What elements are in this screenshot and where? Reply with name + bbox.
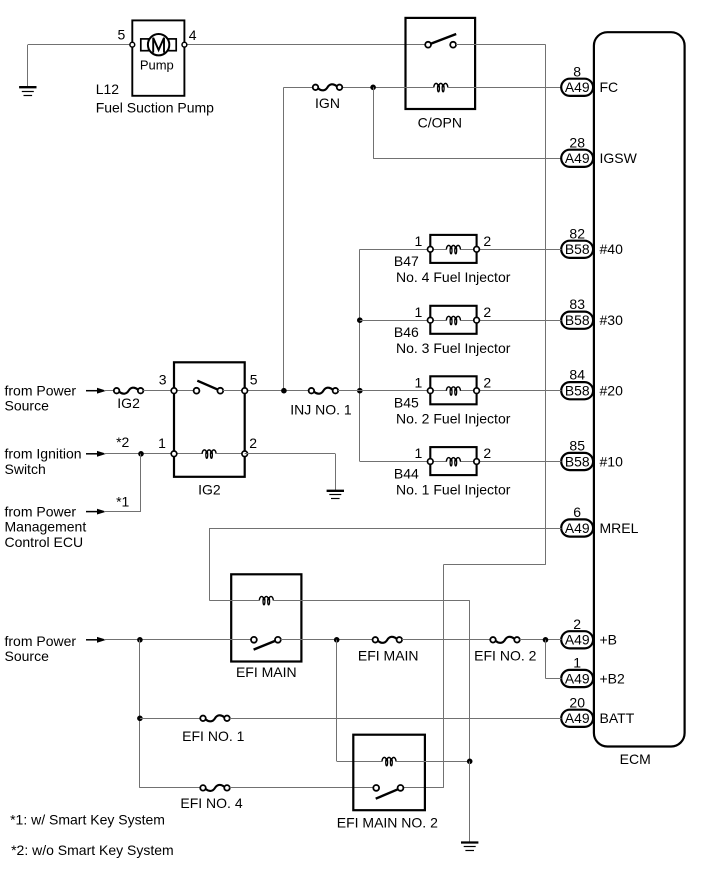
pump terminal pin 4: [182, 42, 187, 47]
fuel injector B47 box: [430, 235, 476, 263]
svg-text:B47: B47: [394, 253, 419, 269]
svg-text:No. 2 Fuel Injector: No. 2 Fuel Injector: [396, 411, 511, 427]
label *1: [116, 493, 129, 509]
node: junction coil/IGSW: [370, 85, 376, 91]
wire: into EFI MAIN NO.2 switch pin: [401, 787, 444, 789]
wire: IGSW horizontal to ECM: [373, 158, 561, 160]
svg-text:INJ NO. 1: INJ NO. 1: [290, 402, 352, 418]
wire: power management to junction: [104, 454, 141, 512]
label from Power Source (bottom): [5, 633, 77, 664]
svg-text:from Power: from Power: [5, 503, 77, 519]
svg-text:Source: Source: [5, 648, 50, 664]
svg-text:5: 5: [250, 371, 258, 387]
svg-text:1: 1: [415, 445, 423, 461]
wire: junction down to IGSW row: [373, 87, 375, 158]
fuse EFI NO. 1: [200, 715, 230, 721]
fuse INJ NO. 1: [309, 388, 339, 394]
svg-text:1: 1: [573, 655, 581, 671]
connector pin A49-8 FC: [561, 63, 618, 96]
wire: IGN branch horizontal: [284, 87, 373, 89]
wire: IG2 fuse to relay pin 3: [143, 390, 196, 392]
pin label 2 (B46): [483, 304, 491, 320]
arrow: from Power Source (IG2): [86, 388, 107, 394]
svg-text:3: 3: [159, 371, 167, 387]
wire: pump pin 4 to C/OPN relay: [184, 44, 428, 46]
node: junction EFI MAIN output: [334, 637, 340, 643]
pin label 5 (IG2): [250, 371, 258, 387]
svg-text:6: 6: [573, 504, 581, 520]
node: junction +B/+B2: [543, 637, 549, 643]
svg-text:B45: B45: [394, 395, 419, 411]
wire: INJ NO.1 fuse to bus: [338, 390, 360, 392]
svg-text:2: 2: [573, 616, 581, 632]
svg-text:BATT: BATT: [600, 710, 635, 726]
label from Ignition Switch: [5, 446, 82, 477]
wire: IG2 coil to pin 2: [216, 453, 245, 455]
wire: bus to injector B47 pin 1: [360, 249, 447, 251]
pin label 3 (IG2): [159, 371, 167, 387]
EFI MAIN NO. 2 relay coil: [382, 757, 396, 765]
IG2 switch: [194, 381, 224, 394]
svg-text:+B: +B: [600, 632, 618, 648]
node: bus junction injector 2: [357, 388, 363, 394]
label from Power Source (top): [5, 383, 77, 414]
wire: coil row left (to MREL riser): [209, 600, 259, 602]
ground (IG2 relay): [327, 491, 344, 499]
svg-text:A49: A49: [565, 520, 590, 536]
injector B46 coil: [446, 316, 460, 324]
IG2 terminal 5: [242, 388, 248, 394]
fuse EFI NO. 2: [490, 637, 520, 643]
node: junction smart key: [138, 451, 144, 457]
injector B45 terminal 1: [428, 388, 434, 394]
wire: +B2 branch: [546, 640, 562, 679]
C/OPN switch: [425, 34, 456, 48]
svg-text:4: 4: [189, 27, 197, 43]
svg-text:No. 4 Fuel Injector: No. 4 Fuel Injector: [396, 269, 511, 285]
label L12: [96, 81, 120, 97]
pin label 2 (B44): [483, 445, 491, 461]
connector pin A49-6 MREL: [561, 504, 638, 537]
arrow: from Ignition Switch: [86, 451, 107, 457]
label Fuel Suction Pump: [96, 100, 214, 116]
connector pin B58-82 #40: [561, 225, 623, 258]
label IGN: [315, 95, 340, 111]
svg-text:*1: *1: [116, 493, 129, 509]
svg-text:2: 2: [483, 233, 491, 249]
ground (EFI MAIN NO. 2): [461, 843, 478, 851]
wire: injector B44 pin 2 to ECM: [460, 461, 561, 463]
svg-text:2: 2: [249, 435, 257, 451]
footnote *1: [10, 812, 165, 828]
svg-text:A49: A49: [565, 150, 590, 166]
pin label 1 (B47): [415, 233, 423, 249]
svg-text:FC: FC: [600, 79, 619, 95]
wire: vertical from IGN down to IG2 output: [283, 87, 285, 390]
wire: down to EFI MAIN NO.2 switch: [443, 565, 445, 788]
svg-text:5: 5: [118, 27, 126, 43]
fuse IG2: [114, 388, 144, 394]
label EFI NO. 1: [182, 728, 244, 744]
svg-text:EFI NO. 1: EFI NO. 1: [182, 728, 244, 744]
svg-text:MREL: MREL: [600, 520, 639, 536]
svg-text:B58: B58: [565, 312, 590, 328]
svg-text:1: 1: [158, 435, 166, 451]
wire: power source riser down: [139, 640, 141, 788]
C/OPN relay box: [406, 18, 476, 109]
svg-text:85: 85: [569, 438, 585, 454]
svg-text:2: 2: [483, 374, 491, 390]
svg-text:C/OPN: C/OPN: [418, 115, 462, 131]
svg-text:#20: #20: [600, 383, 624, 399]
svg-text:8: 8: [573, 63, 581, 79]
connector pin A49-28 IGSW: [561, 134, 637, 167]
svg-text:B58: B58: [565, 241, 590, 257]
label EFI MAIN NO. 2: [337, 815, 438, 831]
fuel suction pump L12 box: [132, 20, 184, 95]
connector pin B58-83 #30: [561, 296, 623, 329]
svg-text:A49: A49: [565, 670, 590, 686]
wire: injector B46 pin 2 to ECM: [460, 320, 561, 322]
label IG2 (fuse): [117, 395, 140, 411]
ground (fuel suction pump, top left): [19, 45, 36, 96]
svg-text:from Power: from Power: [5, 383, 77, 399]
label *2: [116, 434, 129, 450]
svg-text:#40: #40: [600, 241, 624, 257]
svg-text:*2: *2: [116, 434, 129, 450]
IG2 relay box: [174, 362, 245, 477]
fuel injector B45 box: [430, 376, 476, 404]
arrow: from Power Management Control ECU: [86, 509, 107, 515]
injector B47 terminal 1: [428, 247, 434, 253]
EFI MAIN NO. 2 relay box: [353, 735, 425, 811]
wire: MREL to EFI MAIN coil: [209, 528, 561, 600]
svg-text:Management: Management: [5, 519, 87, 535]
svg-text:IGSW: IGSW: [600, 150, 638, 166]
svg-text:Control ECU: Control ECU: [5, 534, 84, 550]
svg-text:IG2: IG2: [117, 395, 140, 411]
footnote *2: [11, 842, 174, 858]
EFI MAIN relay box: [231, 574, 301, 661]
wire: bus to injector B46 pin 1: [360, 320, 447, 322]
svg-text:#10: #10: [600, 453, 624, 469]
svg-text:from Power: from Power: [5, 633, 77, 649]
wire: bus to injector B45 pin 1: [360, 390, 447, 392]
label IG2 (relay): [198, 481, 221, 497]
svg-text:1: 1: [415, 374, 423, 390]
wire: EFI NO.4 fuse to EFI MAIN NO.2: [230, 787, 377, 789]
svg-text:B44: B44: [394, 465, 419, 481]
EFI MAIN relay coil: [259, 596, 273, 604]
connector pin A49-2 +B: [561, 616, 617, 649]
wire: power source into EFI MAIN switch: [104, 639, 254, 641]
svg-text:Pump: Pump: [140, 57, 174, 72]
injector B46 terminal 2: [474, 317, 480, 323]
injector B47 coil: [446, 245, 460, 253]
label B46: [394, 324, 419, 340]
EFI MAIN NO. 2 switch: [373, 785, 403, 799]
svg-text:A49: A49: [565, 79, 590, 95]
motor M symbol (pump): [141, 34, 176, 55]
node: junction EFI NO.1 branch: [137, 716, 143, 722]
wire: C/OPN switch output down: [456, 45, 546, 565]
svg-text:No. 3 Fuel Injector: No. 3 Fuel Injector: [396, 340, 511, 356]
svg-text:83: 83: [569, 296, 585, 312]
label B44: [394, 465, 419, 481]
wire: to EFI NO.4 fuse: [140, 787, 203, 789]
wire: EFI MAIN NO.2 coil out: [396, 761, 470, 763]
svg-text:2: 2: [483, 304, 491, 320]
injector B45 coil: [446, 387, 460, 395]
fuse EFI MAIN: [373, 637, 403, 643]
wire: coil to FC pin: [447, 87, 561, 89]
svg-text:EFI NO. 4: EFI NO. 4: [180, 795, 242, 811]
svg-text:IG2: IG2: [198, 481, 221, 497]
svg-text:28: 28: [569, 134, 585, 150]
wire: IG2 switch to pin 5 and junction: [223, 390, 312, 392]
wire: injector B47 pin 2 to ECM: [460, 249, 561, 251]
svg-text:84: 84: [569, 367, 585, 383]
fuse IGN: [313, 84, 343, 90]
EFI MAIN switch: [251, 637, 281, 650]
svg-text:EFI MAIN NO. 2: EFI MAIN NO. 2: [337, 815, 438, 831]
fuse EFI NO. 4: [200, 785, 230, 791]
label EFI MAIN (relay): [236, 664, 297, 680]
connector pin A49-20 BATT: [561, 694, 634, 727]
wire: coil branch down to EFI MAIN NO.2: [337, 640, 383, 762]
svg-text:No. 1 Fuel Injector: No. 1 Fuel Injector: [396, 481, 511, 497]
node: bus junction injector 3: [357, 317, 363, 323]
label from Power Management Control ECU: [5, 503, 87, 549]
svg-text:82: 82: [569, 225, 585, 241]
svg-text:2: 2: [483, 445, 491, 461]
wire: IG2 pin 2 to ground: [245, 454, 336, 491]
label No. 3 Fuel Injector: [396, 340, 511, 356]
svg-text:1: 1: [415, 233, 423, 249]
fuel injector B44 box: [430, 447, 476, 475]
pump terminal pin 5: [130, 42, 135, 47]
label No. 4 Fuel Injector: [396, 269, 511, 285]
svg-text:#30: #30: [600, 312, 624, 328]
connector pin A49-1 +B2: [561, 655, 625, 688]
wire: EFI NO.2 fuse to +B: [520, 639, 562, 641]
wire: power source to IG2 fuse: [104, 390, 117, 392]
injector B44 terminal 2: [474, 459, 480, 465]
pin label 2 (IG2): [249, 435, 257, 451]
svg-text:EFI NO. 2: EFI NO. 2: [474, 648, 536, 664]
pin label 5 (pump): [118, 27, 126, 43]
label No. 2 Fuel Injector: [396, 411, 511, 427]
label EFI MAIN (fuse): [358, 648, 419, 664]
svg-text:ECM: ECM: [620, 751, 651, 767]
C/OPN relay coil: [434, 83, 448, 91]
IG2 terminal 3: [171, 388, 177, 394]
label B47: [394, 253, 419, 269]
label No. 1 Fuel Injector: [396, 481, 511, 497]
IG2 relay coil: [202, 450, 216, 458]
svg-text:B46: B46: [394, 324, 419, 340]
pin label 2 (B45): [483, 374, 491, 390]
wire: EFI MAIN switch out to fuse row: [281, 639, 376, 641]
connector pin B58-85 #10: [561, 438, 623, 471]
ECM connector box: [594, 32, 685, 767]
svg-text:EFI MAIN: EFI MAIN: [358, 648, 419, 664]
svg-text:from Ignition: from Ignition: [5, 446, 82, 462]
svg-text:B58: B58: [565, 453, 590, 469]
connector pin B58-84 #20: [561, 367, 623, 400]
svg-text:Fuel Suction Pump: Fuel Suction Pump: [96, 100, 214, 116]
wire: ignition switch to IG2 pin 1: [104, 453, 203, 455]
arrow: from Power Source (EFI MAIN): [86, 637, 107, 643]
wire: injector supply bus vertical: [359, 249, 361, 461]
svg-text:Source: Source: [5, 398, 50, 414]
svg-text:B58: B58: [565, 383, 590, 399]
wire: to EFI NO.1 fuse: [140, 718, 203, 720]
pin label 1 (B46): [415, 304, 423, 320]
svg-text:A49: A49: [565, 710, 590, 726]
label Pump: [140, 57, 174, 72]
node: junction IG2 output / IGN branch: [281, 388, 287, 394]
wire: bus to injector B44 pin 1: [360, 461, 447, 463]
pin label 2 (B47): [483, 233, 491, 249]
injector B45 terminal 2: [474, 388, 480, 394]
label C/OPN: [418, 115, 462, 131]
injector B46 terminal 1: [428, 317, 434, 323]
wire: coil row right to drop: [273, 600, 470, 761]
wire: coil row left of C/OPN: [373, 87, 434, 89]
svg-text:+B2: +B2: [600, 670, 626, 686]
node: junction lower power source: [137, 637, 143, 643]
wire: injector B45 pin 2 to ECM: [460, 390, 561, 392]
injector B47 terminal 2: [474, 247, 480, 253]
svg-text:20: 20: [569, 694, 585, 710]
svg-text:IGN: IGN: [315, 95, 340, 111]
label EFI NO. 4: [180, 795, 242, 811]
fuel injector B46 box: [430, 306, 476, 334]
node: junction coil/ground: [467, 759, 473, 765]
svg-text:A49: A49: [565, 632, 590, 648]
pin label 1 (IG2): [158, 435, 166, 451]
label B45: [394, 395, 419, 411]
svg-text:*1: w/ Smart Key System: *1: w/ Smart Key System: [10, 812, 165, 828]
svg-text:Switch: Switch: [5, 461, 46, 477]
injector B44 terminal 1: [428, 459, 434, 465]
svg-text:*2: w/o Smart Key System: *2: w/o Smart Key System: [11, 842, 174, 858]
svg-text:L12: L12: [96, 81, 120, 97]
IG2 terminal 2: [242, 451, 248, 457]
wire: down to bottom ground: [469, 761, 471, 842]
wire: jog left: [443, 564, 545, 566]
pin label 4 (pump): [189, 27, 197, 43]
IG2 terminal 1: [171, 451, 177, 457]
wire: EFI NO.1 fuse to BATT: [230, 718, 562, 720]
label INJ NO. 1: [290, 402, 352, 418]
wire: between EFI MAIN and EFI NO.2 fuses: [402, 639, 493, 641]
svg-text:EFI MAIN: EFI MAIN: [236, 664, 297, 680]
wire: ground to pump pin 5: [28, 44, 133, 46]
pin label 1 (B45): [415, 374, 423, 390]
pin label 1 (B44): [415, 445, 423, 461]
label EFI NO. 2: [474, 648, 536, 664]
svg-text:1: 1: [415, 304, 423, 320]
injector B44 coil: [446, 458, 460, 466]
